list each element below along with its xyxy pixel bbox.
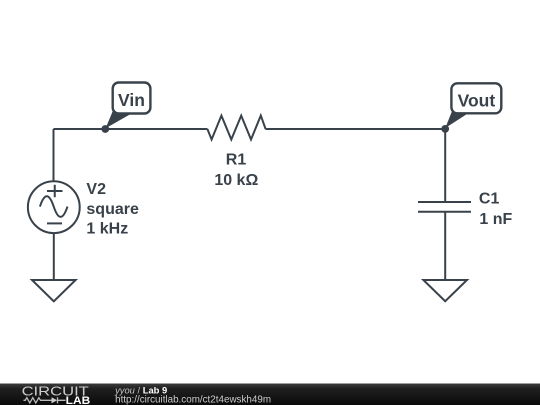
footer bar background [0,384,540,405]
svg-text:http://circuitlab.com/ct2t4ews: http://circuitlab.com/ct2t4ewskh49m [115,395,271,405]
wire right riser Vout to C1 [444,129,446,202]
node Vout junction dot [441,125,449,133]
svg-text:10 kΩ: 10 kΩ [214,172,258,189]
CircuitLab logo diode triangle [52,397,58,403]
wire left riser V2 top [53,129,55,182]
V2 plus sign [47,185,63,198]
ground symbol right [423,280,467,301]
CircuitLab logo resistor zigzag [24,398,52,403]
node Vin junction dot [101,125,109,133]
CircuitLab logo diode bar and lead [58,397,66,403]
ground symbol left [32,280,76,301]
svg-text:V2: V2 [86,181,106,198]
svg-text:Vout: Vout [458,90,496,110]
wire top-left horizontal (Vin net) [54,128,208,130]
svg-text:1 nF: 1 nF [479,211,512,228]
resistor R1 [207,116,265,140]
svg-text:LAB: LAB [66,395,91,405]
wire top-right horizontal (Vout net) [266,128,446,130]
svg-text:Vin: Vin [118,90,145,110]
voltage source V2 body [28,181,80,233]
node Vout flag box [451,83,501,113]
svg-text:1 kHz: 1 kHz [86,221,128,238]
svg-text:R1: R1 [226,151,247,168]
node Vout flag tail [445,111,468,128]
svg-text:C1: C1 [479,191,500,208]
V2 sine wave [40,196,68,217]
wire C1 bottom to ground [444,212,446,280]
wire V2 bottom to ground [53,233,55,280]
svg-text:square: square [86,201,139,218]
node Vin flag tail [106,111,132,129]
node Vin flag box [113,83,151,114]
capacitor C1 plates [418,202,471,212]
V2 minus sign [47,222,62,224]
